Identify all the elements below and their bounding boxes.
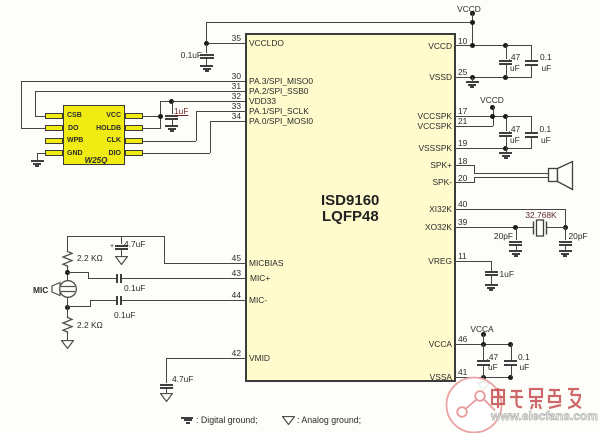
C1 plates <box>200 54 214 56</box>
junction VDD33 node <box>169 99 174 104</box>
wire down to R1 <box>67 236 68 251</box>
C9 plates <box>499 132 512 134</box>
pin number 10 <box>458 37 467 45</box>
resistor R1 2.2 KOhm <box>59 250 77 268</box>
wire DO stub <box>21 128 45 129</box>
C5 plates <box>115 245 128 247</box>
wire MIC bottom <box>67 297 68 307</box>
pin 25 name VSSD <box>380 73 452 81</box>
wire CSB stub <box>35 116 45 117</box>
C15 value 0.1 uF <box>518 353 530 361</box>
pin 18 name SPK+ <box>380 161 452 169</box>
node VCCD top rail wire <box>206 22 472 23</box>
C2 value 1uF <box>174 107 188 115</box>
wire MIC- jog <box>67 306 91 307</box>
watermark logo circle <box>444 375 505 433</box>
capacitor C1 0.1uF stem <box>206 44 207 53</box>
capacitor C2 1uF stem <box>172 101 173 114</box>
C4 value 0.1uF <box>114 311 135 319</box>
U2 pin stub GND <box>45 150 63 156</box>
wire vertical SCLK to CLK <box>196 111 197 141</box>
legend digital ground text <box>196 416 258 425</box>
wire pin 32 VDD33 <box>160 101 246 102</box>
wire R2 to ground <box>67 334 68 340</box>
pin number 18 <box>458 157 467 165</box>
junction VCC node <box>158 114 163 119</box>
U2 pin stub VCC <box>125 113 143 119</box>
power tap dot VCCA <box>481 332 486 337</box>
pin number 44 <box>207 291 241 299</box>
junction MIC- node <box>65 305 70 310</box>
pin 21 name VCCSPK <box>380 122 452 130</box>
pin 19 name VSSSPK <box>380 144 452 152</box>
U2 pin stub HOLDB <box>125 125 143 131</box>
U2 pin stub WPB <box>45 138 63 144</box>
wire MIC+ jog <box>67 272 89 273</box>
wire vertical VDD33 down <box>160 101 161 129</box>
analog ground under VSSA <box>483 377 484 382</box>
wire vertical to pin 35 node <box>206 22 207 44</box>
pin number 35 <box>207 34 241 42</box>
junction pin 35 node <box>204 41 209 46</box>
wire VCC stub link <box>143 116 160 117</box>
wire CLK link <box>143 141 196 142</box>
capacitor C13 1uF plates <box>485 271 498 273</box>
C11 value 20pF <box>489 232 513 240</box>
analog ground under C6 <box>160 393 173 402</box>
pin number 33 <box>207 102 241 110</box>
wire pin 33 PA.1/SPI_SCLK <box>196 111 246 112</box>
wire HOLDB stub link <box>143 128 160 129</box>
wire VMID down <box>166 358 167 383</box>
C14 plates <box>477 360 490 362</box>
pin number 31 <box>207 82 241 90</box>
C9 value .47 uF <box>509 125 521 133</box>
C13 value 1uF <box>500 270 514 278</box>
digital ground under C13 <box>485 284 498 286</box>
digital ground under C12 <box>559 250 572 252</box>
pin 42 name VMID <box>249 354 270 362</box>
wire pin 42 VMID <box>166 358 246 359</box>
pin number 25 <box>458 68 467 76</box>
digital ground under C2 <box>165 125 178 127</box>
resistor R2 2.2 KOhm <box>59 316 77 334</box>
wire vertical MISO to DO <box>21 81 22 128</box>
C8 plates <box>525 60 538 62</box>
pin 17 name VCCSPK <box>380 112 452 120</box>
wire DIO link <box>143 153 210 154</box>
junction pin19 <box>503 146 508 151</box>
crystal Y1 32.768K <box>531 219 549 237</box>
pin 35 name VCCLDO <box>249 39 284 47</box>
power net VCCD label at VCCSPK <box>472 96 512 104</box>
pin 32 name VDD33 <box>249 97 276 105</box>
C12 value 20pF <box>569 232 588 240</box>
junction pin17 a <box>490 114 495 119</box>
pin number 17 <box>458 107 467 115</box>
wire MICBIAS top rail <box>67 236 164 237</box>
junction pin17 b <box>503 114 508 119</box>
wire pin 17 VCCSPK <box>455 116 532 117</box>
capacitor C5 4.7uF on MICBIAS stem <box>121 236 122 244</box>
pin 39 name XO32K <box>380 223 452 231</box>
pin 11 name VREG <box>380 257 452 265</box>
legend digital ground symbol <box>181 417 193 419</box>
power tap dot VCCSPK <box>490 105 495 110</box>
pin number 21 <box>458 117 467 125</box>
U2 name W25Q <box>76 157 116 165</box>
C2 plates <box>165 115 178 117</box>
digital ground under W25Q GND <box>31 160 44 162</box>
capacitor C9 .47uF stem <box>506 116 507 131</box>
capacitor C15 0.1uF stem <box>511 344 512 360</box>
pin 20 name SPK- <box>380 178 452 186</box>
pin 40 name XI32K <box>380 205 452 213</box>
capacitor C12 20pF stem <box>565 227 566 240</box>
analog ground under C5 <box>115 256 128 265</box>
U1 title LQFP48 <box>322 209 379 224</box>
power net VCCD top label <box>449 5 489 13</box>
C14 value .47 uF <box>487 353 499 361</box>
wire pin 11 VREG <box>455 261 492 262</box>
wire VCCSPK drop <box>493 107 494 126</box>
C11 plates <box>509 241 522 243</box>
capacitor C7 .47uF stem <box>506 45 507 59</box>
pin number 39 <box>458 218 467 226</box>
pin 41 name VSSA <box>380 373 452 381</box>
U2 label HOLDB <box>81 125 121 132</box>
speaker LS1 <box>547 160 575 191</box>
pin number 43 <box>207 269 241 277</box>
R2 value 2.2 KOhm <box>77 321 103 329</box>
U2 label WPB <box>67 137 83 144</box>
pin 30 name PA.3/SPI_MISO0 <box>249 77 313 85</box>
capacitor C6 4.7uF plates <box>160 384 173 386</box>
U2 label CLK <box>81 137 121 144</box>
pin number 11 <box>458 252 467 260</box>
pin 10 name VCCD <box>380 42 452 50</box>
pin number 40 <box>458 200 467 208</box>
wire vertical SSB to CSB <box>35 91 36 116</box>
C12 plates <box>559 241 572 243</box>
capacitor C4 0.1uF series MIC- plates <box>116 296 118 305</box>
junction pin25 a <box>470 75 475 80</box>
U2 label VCC <box>81 112 121 119</box>
U2 label DIO <box>81 150 121 157</box>
pin 34 name PA.0/SPI_MOSI0 <box>249 117 313 125</box>
wire VCCA drop <box>483 334 484 345</box>
pin number 32 <box>207 92 241 100</box>
junction pin41 b <box>508 375 513 380</box>
wire pin 41 VSSA <box>455 377 511 378</box>
U2 pin stub CSB <box>45 113 63 119</box>
wire pin 25 VSSD <box>455 77 532 78</box>
junction pin25 b <box>503 75 508 80</box>
U2 label GND <box>67 150 83 157</box>
C8 value 0.1 uF <box>540 53 552 61</box>
digital ground under C11 <box>509 250 522 252</box>
analog ground under R2 <box>61 340 74 349</box>
pin number 42 <box>207 349 241 357</box>
pin 43 name MIC+ <box>250 274 270 282</box>
wire SPK- run <box>474 177 549 178</box>
C5 value 4.7uF <box>124 240 145 248</box>
power net VCCA label <box>462 325 502 333</box>
digital ground under C1 <box>200 65 213 67</box>
junction pin46 b <box>508 342 513 347</box>
C1 value 0.1uF <box>170 51 202 59</box>
C5 plus mark <box>110 243 114 250</box>
wire crystal right link <box>547 227 566 228</box>
junction VCCD rail <box>470 20 475 25</box>
junction pin10 a <box>470 43 475 48</box>
pin number 30 <box>207 72 241 80</box>
pin number 20 <box>458 174 467 182</box>
legend analog ground text <box>297 416 361 425</box>
C6 value 4.7uF <box>172 375 193 383</box>
wire pin 34 PA.0/SPI_MOSI0 <box>210 121 246 122</box>
pin number 46 <box>458 335 467 343</box>
C7 value .47 uF <box>509 53 521 61</box>
C10 value 0.1 uF <box>540 125 552 133</box>
power tap dot VCCD <box>470 11 475 16</box>
wire MIC- to R2 <box>67 306 68 317</box>
U2 pin stub DIO <box>125 150 143 156</box>
wire pin 19 VSSSPK <box>455 148 532 149</box>
pin number 41 <box>458 368 467 376</box>
wire pin 40 XI32K <box>455 209 566 210</box>
capacitor C10 0.1uF riser <box>531 116 532 132</box>
junction crystal left <box>513 225 518 230</box>
wire pin 30 PA.3/SPI_MISO0 <box>21 81 246 82</box>
watermark chinese text <box>490 386 584 412</box>
wire pin 39 XO32K <box>455 227 534 228</box>
junction pin41 a <box>481 375 486 380</box>
pin number 19 <box>458 139 467 147</box>
flash chip U2 W25Q body <box>63 105 125 165</box>
wire pin 20 SPK- <box>455 182 475 183</box>
C7 plates <box>499 60 512 62</box>
MIC label <box>33 286 48 294</box>
capacitor C11 20pF stem <box>516 227 517 240</box>
wire pin 21 VCCSPK <box>455 126 493 127</box>
wire VREG down <box>491 261 492 271</box>
wire MICBIAS vertical <box>164 236 165 263</box>
pin 46 name VCCA <box>380 340 452 348</box>
wire pin 45 MICBIAS <box>164 263 246 264</box>
wire pin 46 VCCA <box>455 344 511 345</box>
R1 value 2.2 KOhm <box>77 254 103 262</box>
wire XI32K down <box>565 209 566 228</box>
C3 value 0.1uF <box>124 284 145 292</box>
wire GND stub <box>37 153 45 154</box>
pin number 34 <box>207 112 241 120</box>
wire C3 to pin 43 <box>122 278 246 279</box>
capacitor C8 0.1uF riser <box>531 45 532 60</box>
watermark url text <box>491 410 598 422</box>
Y1 value 32.768K <box>516 211 566 219</box>
wire vertical MOSI to DIO <box>210 121 211 153</box>
U2 pin stub CLK <box>125 138 143 144</box>
legend analog ground symbol <box>282 416 295 425</box>
wire C4 to pin 44 <box>122 300 246 301</box>
pin 31 name PA.2/SPI_SSB0 <box>249 87 308 95</box>
wire GND down <box>37 153 38 160</box>
digital ground under VSSD <box>472 77 473 81</box>
digital ground under VSSSPK <box>506 148 507 152</box>
op-amp U1 main IC ISD9160 body <box>245 33 456 382</box>
U2 label DO <box>68 125 79 132</box>
junction crystal right <box>563 225 568 230</box>
pin 44 name MIC- <box>249 296 267 304</box>
wire R1 to MIC <box>67 267 68 281</box>
U2 label CSB <box>67 112 82 119</box>
wire pin 31 PA.2/SPI_SSB0 <box>35 91 246 92</box>
C15 plates <box>504 360 517 362</box>
wire VCCD drop <box>472 13 473 46</box>
pin 33 name PA.1/SPI_SCLK <box>249 107 309 115</box>
C10 plates <box>525 132 538 134</box>
capacitor C3 0.1uF series MIC+ plates <box>116 274 118 283</box>
capacitor C14 .47uF stem <box>483 344 484 360</box>
wire pin 18 SPK+ <box>455 165 475 166</box>
pin number 45 <box>207 254 241 262</box>
wire pin 35 VCCLDO <box>206 43 246 44</box>
U2 pin stub DO <box>45 125 63 131</box>
junction pin46 a <box>481 342 486 347</box>
microphone MIC symbol <box>48 278 80 300</box>
junction pin10 b <box>503 43 508 48</box>
wire pin 10 VCCD <box>455 45 532 46</box>
pin 45 name MICBIAS <box>249 259 283 267</box>
junction MIC+ node <box>65 270 70 275</box>
wire SPK+ run <box>474 173 549 174</box>
U1 title ISD9160 <box>321 193 379 208</box>
